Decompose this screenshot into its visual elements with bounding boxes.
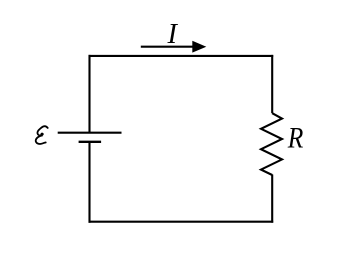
wire left lower <box>88 142 90 223</box>
wire right upper <box>271 55 273 113</box>
battery EMF source: long plate <box>58 132 122 134</box>
svg-text:I: I <box>167 19 179 50</box>
svg-text:R: R <box>287 121 303 154</box>
wire top <box>89 55 274 57</box>
resistor R zigzag <box>261 113 282 175</box>
wire bottom <box>89 221 274 223</box>
current arrow head <box>192 41 206 53</box>
label script E (EMF) <box>36 126 48 144</box>
current arrow shaft <box>141 46 194 48</box>
wire left upper <box>88 55 90 133</box>
battery EMF source: short plate <box>79 141 102 143</box>
wire right lower <box>271 175 273 223</box>
